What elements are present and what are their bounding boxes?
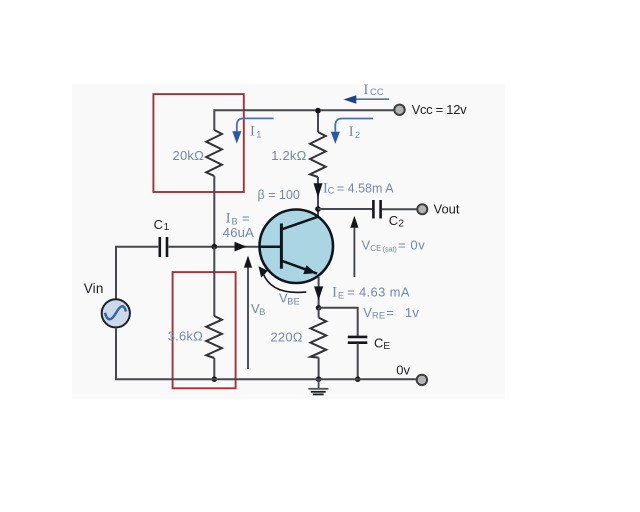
svg-text:1.2kΩ: 1.2kΩ: [271, 148, 306, 163]
svg-text:C: C: [328, 186, 335, 196]
svg-text:1v: 1v: [405, 305, 419, 320]
wire: Vin to bottom rail: [115, 328, 117, 380]
svg-text:20kΩ: 20kΩ: [173, 148, 205, 163]
transistor emitter lead with arrow: [281, 260, 317, 273]
arrow I2 (blue hooked, down): [335, 119, 373, 132]
svg-text:220Ω: 220Ω: [270, 330, 302, 345]
wire: bottom 0v rail: [115, 378, 417, 380]
arrow VBE (arc): [263, 273, 307, 293]
wire: 3.6k bottom lead: [213, 358, 215, 379]
node: CE rail dot: [355, 376, 361, 382]
svg-text:Vcc = 12v: Vcc = 12v: [412, 102, 468, 117]
wire: Vin vertical: [115, 247, 117, 300]
svg-text:(sat): (sat): [383, 244, 398, 253]
svg-text:2: 2: [355, 130, 360, 140]
wire: collector to C2: [318, 208, 372, 210]
svg-text:E: E: [338, 291, 344, 301]
wire: CE to rail: [357, 344, 359, 380]
resistor R4 220 zigzag: [311, 318, 327, 358]
wire: 1.2k bottom lead to collector node: [317, 177, 319, 218]
capacitor C2 plates: [372, 200, 375, 219]
svg-text:V: V: [363, 305, 372, 320]
svg-text:C: C: [374, 335, 383, 350]
wire: top Vcc rail: [214, 109, 395, 111]
svg-text:E: E: [383, 341, 390, 352]
resistor R3 3.6k zigzag: [206, 316, 222, 358]
red highlight box (20k bias resistor): [153, 94, 243, 192]
wire: C2 to Vout: [382, 208, 418, 210]
wire: 1.2k top lead: [317, 110, 319, 132]
svg-text:I: I: [332, 285, 337, 301]
arrow VB (up): [247, 267, 249, 370]
terminal 0v: [417, 375, 427, 385]
wire: emitter node to CE branch: [319, 308, 358, 336]
svg-text:C: C: [154, 217, 163, 232]
svg-text:1: 1: [256, 130, 261, 140]
panel background: [72, 84, 505, 399]
svg-text:I: I: [250, 124, 255, 140]
arrow VCE(sat) (up): [353, 226, 355, 277]
ground symbol: [318, 379, 320, 388]
svg-text:RE: RE: [372, 311, 385, 321]
arrow IE (black, down): [314, 286, 323, 300]
svg-text:I: I: [364, 82, 369, 98]
svg-text:1: 1: [164, 222, 170, 233]
svg-text:B: B: [259, 307, 265, 317]
wire: 220 top lead: [318, 308, 320, 318]
capacitor C1 plates: [159, 237, 162, 257]
svg-text:0v: 0v: [396, 362, 410, 377]
svg-text:C: C: [389, 213, 398, 228]
resistor R2 1.2k zigzag: [310, 132, 326, 177]
svg-text:Vout: Vout: [434, 201, 460, 216]
wire: 20k top lead: [213, 109, 215, 130]
wire: 20k bottom lead to base node: [213, 176, 215, 247]
transistor collector lead: [281, 217, 319, 230]
resistor R1 20k zigzag: [206, 130, 222, 176]
svg-text:46uA: 46uA: [223, 225, 254, 240]
arrow IB (black, right on base wire): [235, 242, 247, 252]
svg-text:= 4.58m A: = 4.58m A: [337, 181, 394, 195]
arrow ICC (blue, left): [356, 98, 389, 100]
transistor base lead (inside body): [259, 245, 282, 248]
node: 3.6k to rail dot: [212, 376, 218, 382]
svg-text:= 0v: = 0v: [398, 238, 425, 253]
wire: C1 to base: [169, 246, 261, 248]
source Vin (sine): [102, 299, 130, 327]
svg-text:β = 100: β = 100: [258, 188, 300, 202]
svg-text:CC: CC: [370, 87, 384, 97]
svg-text:Vin: Vin: [84, 281, 104, 296]
node: collector dot: [315, 206, 321, 212]
svg-text:I: I: [226, 211, 231, 227]
wire: emitter down: [318, 277, 320, 308]
node: top rail junction dot: [315, 108, 321, 114]
red highlight box (3.6k bias resistor): [173, 272, 236, 388]
capacitor CE plates: [348, 336, 368, 339]
svg-text:I: I: [349, 124, 354, 140]
wire: input node to C1: [115, 246, 158, 248]
svg-text:=: =: [386, 305, 394, 320]
transistor base bar: [280, 224, 283, 269]
node: emitter node dot: [316, 305, 322, 311]
terminal Vcc: [394, 105, 404, 115]
svg-text:3.6kΩ: 3.6kΩ: [168, 329, 203, 344]
transistor Q1 (NPN) body: [260, 210, 334, 284]
wire: 3.6k top lead: [213, 247, 215, 316]
svg-text:=: =: [242, 211, 250, 226]
svg-text:V: V: [362, 238, 371, 253]
svg-text:BE: BE: [287, 297, 300, 307]
wire: 220 bottom lead: [318, 358, 320, 379]
terminal Vout: [417, 204, 427, 214]
svg-text:2: 2: [398, 218, 404, 229]
svg-text:CE: CE: [370, 244, 381, 253]
arrow I1 (blue hooked, down): [237, 118, 274, 131]
node: 220 rail dot: [316, 376, 322, 382]
node: base node dot: [212, 244, 218, 250]
arrow IC (black, down): [314, 183, 323, 198]
svg-text:= 4.63 mA: = 4.63 mA: [347, 285, 410, 300]
